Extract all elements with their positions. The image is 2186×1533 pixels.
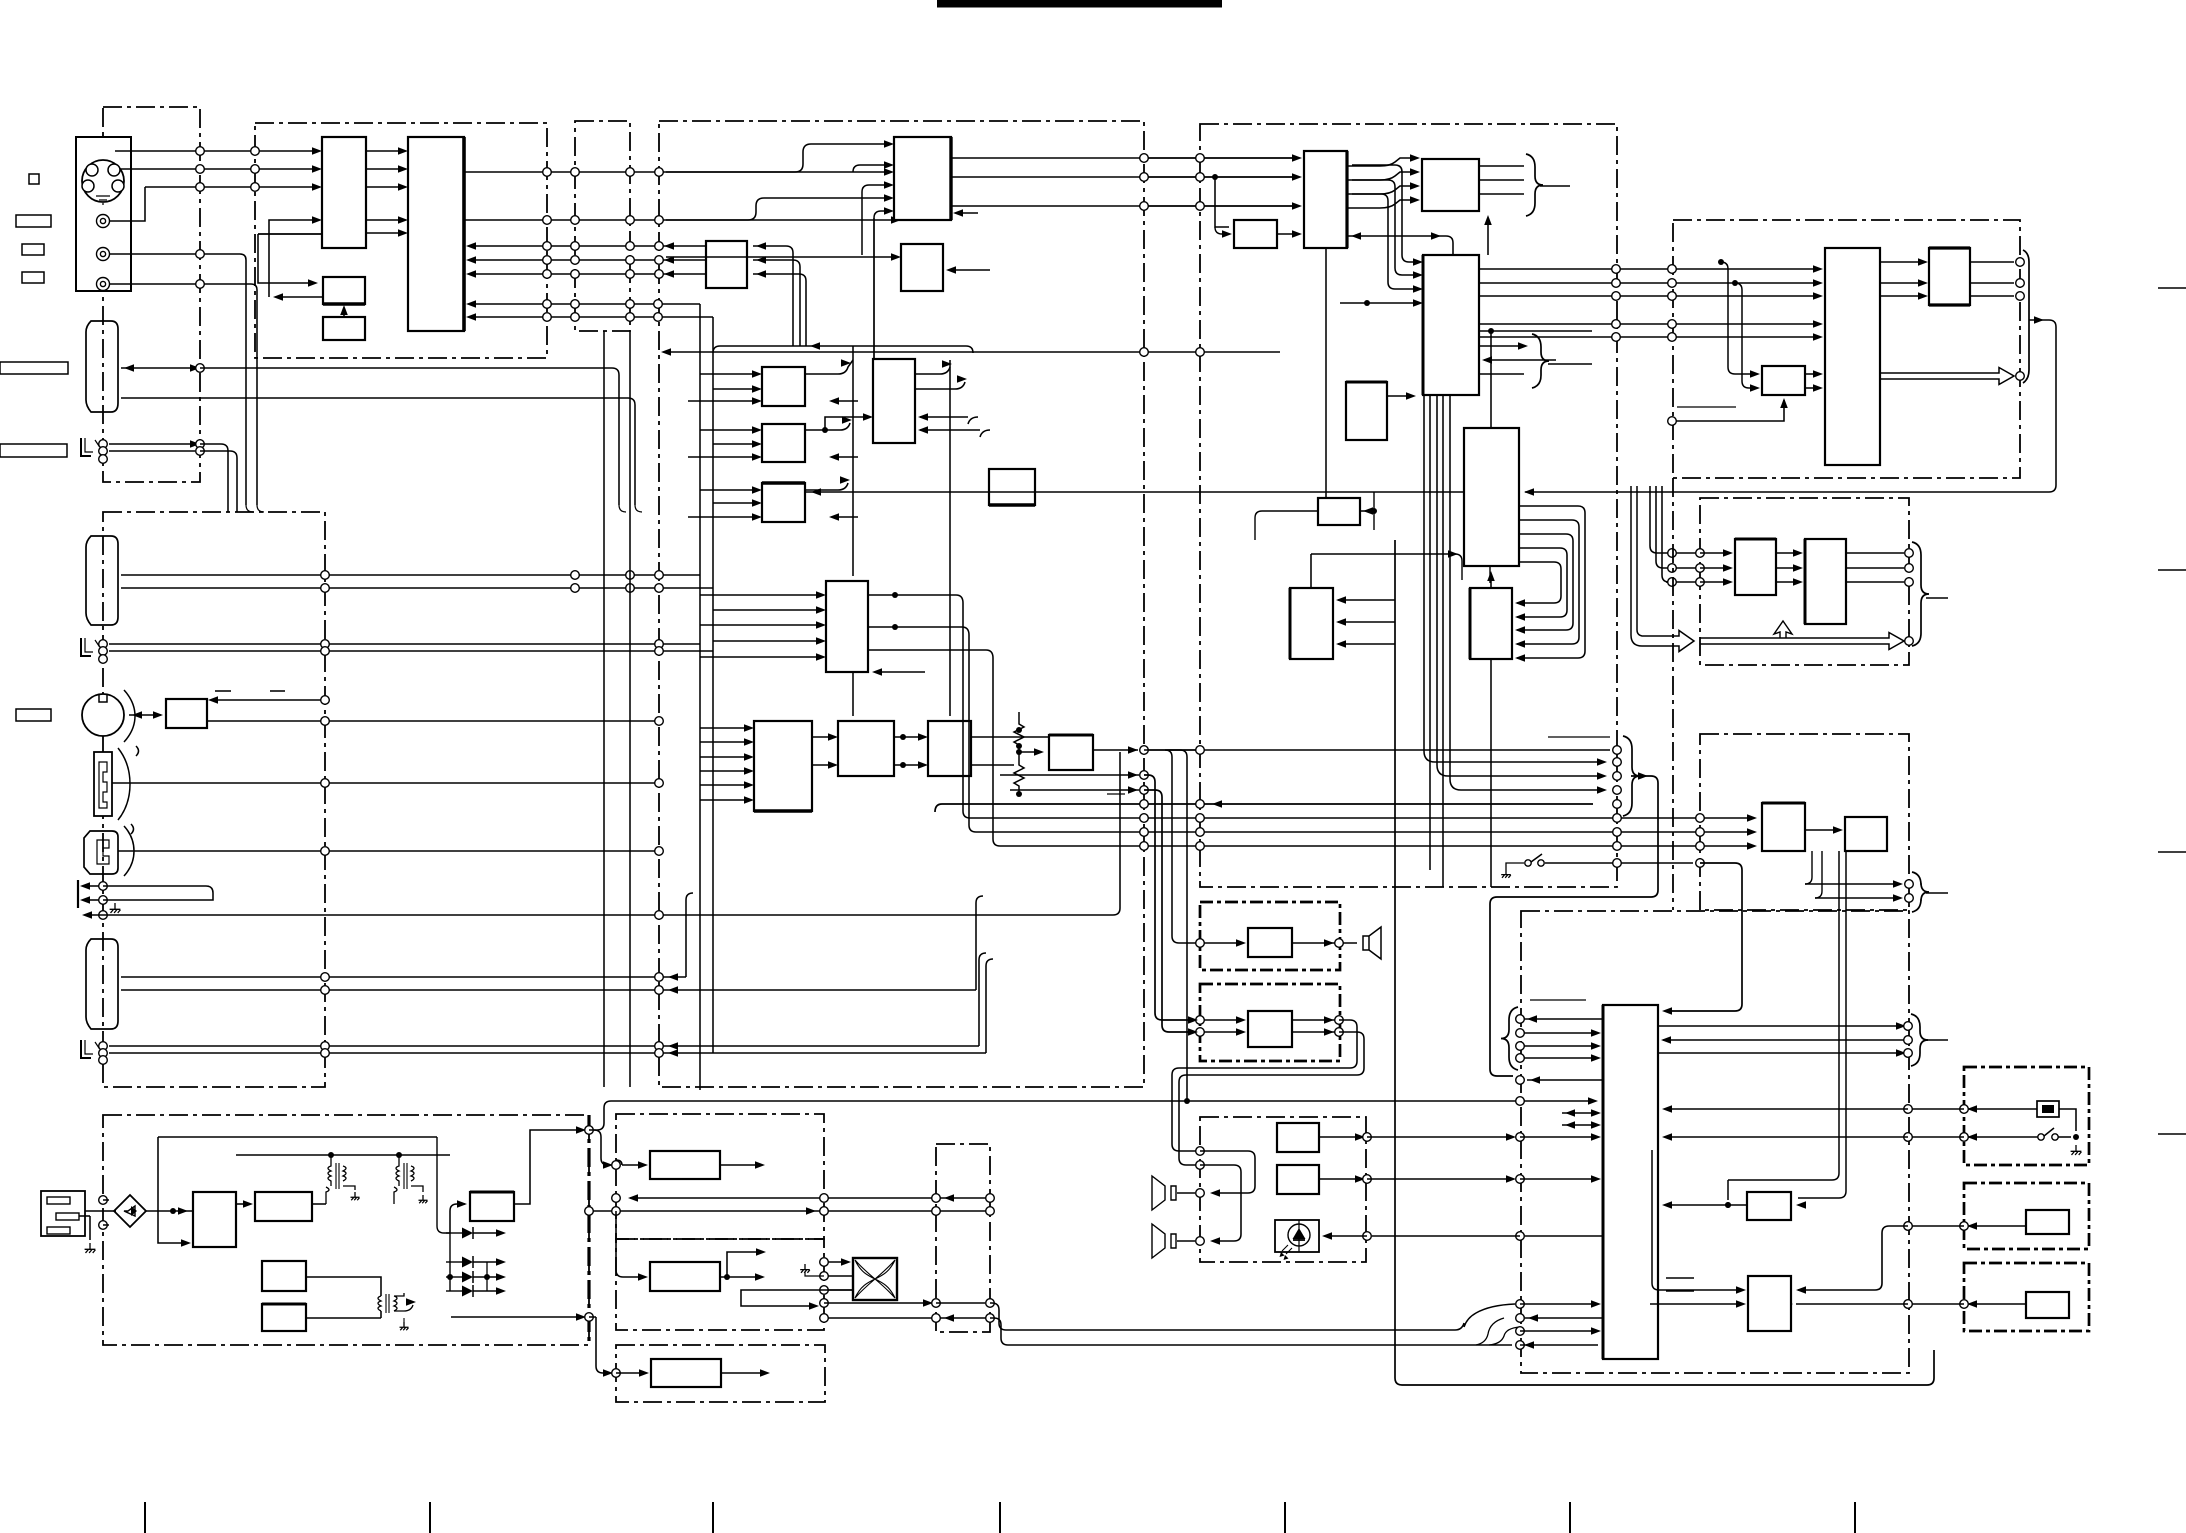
label line segment	[1677, 406, 1736, 408]
wire audio return vertical x1120	[1113, 752, 1120, 915]
block U404 standby supply	[262, 1304, 306, 1331]
block U501 regulator A	[650, 1151, 720, 1179]
wire top horizontal y346	[713, 346, 973, 353]
board outline: connector board left-middle	[103, 512, 325, 1087]
wire long vertical x1395 upper	[1394, 540, 1396, 894]
block U911 IF amp	[1735, 539, 1776, 595]
connector RCA jack 3	[97, 278, 110, 291]
board outline: switch board 1	[1964, 1183, 2089, 1249]
wire U310 inputs	[700, 594, 821, 596]
board outline: power supply board	[103, 1115, 589, 1345]
wire V/A2 audio y651	[109, 650, 713, 652]
connector J1 DIN jack panel	[76, 137, 131, 291]
dash mark pair	[215, 690, 231, 692]
board outline: DV process board	[1200, 124, 1617, 887]
connector memory stick slot	[94, 752, 112, 816]
wire into U101 row4 from sync loop	[269, 220, 317, 297]
label line above	[1530, 999, 1586, 1001]
wire jack riser from D-sub1	[246, 505, 253, 512]
transformer T401	[326, 1155, 331, 1204]
wire U314 out right	[1093, 749, 1138, 751]
wire motor control	[211, 699, 325, 701]
resistor R301	[1014, 712, 1024, 753]
speaker SP702	[1152, 1224, 1176, 1258]
connector video/audio in 2 (V/A)	[81, 638, 91, 656]
connector CF card slot	[84, 831, 118, 874]
connector AC power inlet	[41, 1191, 85, 1236]
block U503 regulator C	[651, 1359, 721, 1387]
wire U310 outputs right	[868, 595, 963, 603]
connector RCA jack 2	[97, 248, 110, 261]
speaker SP701	[1152, 1176, 1176, 1210]
wire vertical bus x700	[699, 304, 701, 1090]
wire riser x874 to U307	[873, 218, 875, 359]
block U102 video decoder	[408, 137, 464, 331]
wire U102 outputs right y172	[464, 171, 889, 173]
block U803 clock gen	[1234, 220, 1277, 248]
wire headphone long return y915	[85, 914, 1113, 916]
wire U807 wires	[1255, 511, 1318, 540]
wire fan loop	[741, 1290, 853, 1306]
board outline: output board top-right	[1673, 220, 2020, 478]
wire input bus to U801 y177	[1139, 176, 1299, 178]
hollow bus branch to U912	[1774, 621, 1792, 638]
wire U804 outputs right y283	[1479, 282, 1820, 284]
wire U804 bidir with U801	[1347, 236, 1453, 255]
brace syscon in	[1501, 1007, 1518, 1070]
wire amp to speaker	[1292, 942, 1357, 944]
board outline: regulator sub board 1	[616, 1114, 824, 1239]
block U502 regulator B	[650, 1262, 720, 1291]
board outline: main process board	[659, 121, 1144, 1087]
wire U311 inputs	[700, 727, 749, 729]
wire RCA1 to row3	[109, 187, 145, 221]
wire U802 up from U804	[1487, 218, 1489, 255]
wire transformer feeds	[328, 1152, 334, 1158]
board outline: monitor speaker board	[1200, 902, 1340, 970]
block U308 SDRAM	[989, 469, 1035, 505]
margin tick 7	[1854, 1502, 1856, 1533]
wire U404 to T403	[306, 1317, 381, 1319]
label rect 2	[22, 244, 44, 255]
wire U303 input stub right	[949, 269, 990, 271]
wire U103 out to left	[276, 296, 323, 298]
wire clock branch to U803	[1215, 177, 1229, 227]
board outline: jumper board	[575, 121, 630, 331]
board outline: LED keyboard board	[1200, 1117, 1366, 1262]
wire row y748 branch down to keys	[1144, 750, 1187, 1101]
wire dv bus fanout right y776	[1437, 765, 1603, 776]
wire X101 to U103	[343, 308, 345, 317]
wire U804 outputs right y324	[1479, 323, 1820, 325]
block U1001 system control micro	[1603, 1005, 1658, 1359]
wire return bus into U102 y246	[469, 245, 706, 247]
wire label right margin y570	[2158, 569, 2186, 571]
block U403 sub regulator	[262, 1261, 306, 1291]
wire U805 output right	[1387, 395, 1412, 397]
wire U307 inputs right	[920, 417, 978, 424]
wire bottom long rail y1385	[1395, 894, 1934, 1385]
wire fan rail y1318 right	[824, 1317, 990, 1319]
block U306 audio DSP input	[762, 483, 805, 522]
board outline: sub speaker board	[1200, 984, 1340, 1061]
wire input bus to U801 y206	[1139, 205, 1299, 207]
wire battery to switch	[2059, 1109, 2076, 1131]
wire driver2 left in2	[1650, 1303, 1743, 1305]
wire U808 inputs from right	[1338, 599, 1395, 601]
board outline: video input board	[255, 123, 547, 358]
wire U311 to U312	[812, 736, 833, 738]
board outline: remote sensor board	[1964, 1067, 2089, 1165]
wire V/A1 video	[109, 443, 195, 445]
wire +B long rail y1101	[589, 1101, 1593, 1130]
wire U102 outputs right y220	[464, 219, 896, 221]
wire U805 inputs left	[1311, 554, 1452, 588]
wire U307 outputs right	[915, 367, 950, 374]
wire fan pins	[824, 1261, 848, 1263]
wire A2 inputs from risers	[753, 246, 793, 346]
brace DV out	[1526, 154, 1543, 216]
wire reg rail y1211	[589, 1210, 990, 1212]
transformer T403	[378, 1296, 381, 1311]
connector D-sub 1	[86, 321, 118, 412]
board outline: timer board mid-right	[1700, 734, 1909, 910]
brace timer out	[1912, 872, 1929, 912]
wire U402 to transformer	[312, 1203, 326, 1205]
label line under y790	[1107, 793, 1125, 795]
wire resistor junction to U314	[1019, 751, 1039, 753]
block U922 display	[1845, 817, 1887, 851]
connector J1 DIN circle	[82, 160, 124, 202]
board outline: front jack board top-left	[103, 107, 200, 482]
wire U401 to U402	[236, 1203, 250, 1205]
wire U801 to U802 rows	[1347, 158, 1417, 166]
toggle switch S801	[1525, 860, 1531, 866]
wire timer bus down 2	[1798, 851, 1846, 1198]
block U921 timer micro	[1762, 803, 1805, 851]
bracket RF out	[2023, 250, 2029, 383]
block U602 sub speaker amp	[1248, 1011, 1292, 1047]
wire phones feed y886 loop	[103, 886, 213, 900]
label square small top-left	[29, 174, 39, 184]
wire reg rail y1198	[630, 1197, 990, 1199]
wire U702 out to system	[1319, 1178, 1362, 1180]
label rect 1	[16, 215, 51, 227]
wire return bus into U102 y317	[469, 316, 713, 318]
wire AC to rectifier	[103, 1210, 116, 1212]
board outline: tuner board mid-right	[1700, 498, 1909, 665]
wire row y832	[969, 635, 1752, 832]
block U312 headphone amp	[838, 721, 894, 776]
dash-dot corridor below output board	[1672, 478, 1674, 910]
wire switch2 to syscon	[1969, 1303, 2026, 1305]
block U801 DV interface	[1304, 151, 1347, 248]
title underline bar	[937, 0, 1222, 8]
wire sub amp out wrap 2	[1179, 1032, 1364, 1165]
wire timer out rows	[1805, 883, 1899, 885]
wire bus y352 long return	[664, 351, 1280, 353]
wire standby rail to reg3	[589, 1317, 610, 1373]
wire U803 to U801	[1277, 233, 1299, 235]
block U103 sync separator	[323, 277, 365, 304]
wire into monitor amp	[1165, 750, 1200, 943]
wire U809 to U806 arrow	[1490, 574, 1492, 588]
wire vertical bus x713	[712, 317, 714, 1053]
wire power rail into reg board 1	[594, 1130, 611, 1165]
wire CF data y851	[118, 850, 659, 852]
board outline: switch board 2	[1964, 1263, 2089, 1331]
block U912 tuner demod	[1805, 539, 1846, 624]
wire sub amp out wrap 1	[1292, 1019, 1339, 1021]
connector video/audio in 3 (V/A)	[81, 1040, 91, 1058]
wire syscon right rows	[1658, 1025, 1903, 1027]
block U804 DV codec	[1423, 255, 1479, 395]
block X101 oscillator	[323, 317, 365, 340]
wire U804 outputs right y337	[1479, 336, 1820, 338]
bridge rectifier D1	[114, 1195, 146, 1227]
wire into U502	[616, 1211, 645, 1277]
brace syscon right	[1911, 1014, 1928, 1066]
wire return bus into U102 y260	[469, 259, 706, 261]
wire U502 out to fan	[720, 1276, 760, 1278]
wire long rail y1345 to system	[1008, 1344, 1512, 1346]
wire tuner rows	[1650, 486, 1666, 553]
block U903 Y/C mix	[1762, 366, 1805, 395]
speaker SP601	[1363, 927, 1381, 959]
wire to SP702	[1200, 1165, 1241, 1241]
block U305 D/A converter	[762, 424, 805, 462]
wire long vertical x950	[949, 360, 951, 716]
wire vertical jumper riser x604	[603, 331, 605, 1087]
brace tuner out	[1912, 542, 1929, 646]
wire DIN video to U101 row3	[145, 186, 317, 188]
wire vertical dv bus from U804	[1423, 395, 1425, 751]
block U902 RF modulator	[1929, 248, 1970, 305]
margin tick 2	[429, 1502, 431, 1533]
block D701 LED	[1275, 1220, 1319, 1252]
wire U304 inputs	[700, 373, 757, 375]
block U314 mute	[1049, 735, 1093, 770]
wire monitor audio out y990	[121, 896, 983, 990]
wire into U501	[616, 1160, 645, 1165]
wire V/A2 video y644	[109, 643, 700, 645]
wire U401 feedback lower	[158, 1137, 188, 1243]
block U302 sync gen	[706, 241, 747, 288]
label line segment y737	[1548, 736, 1610, 738]
wire y220 S-curve into U301	[666, 198, 889, 220]
wire V/A1 audio	[109, 450, 195, 452]
wire U301 input stub right	[956, 212, 978, 214]
wire U903 to U901	[1805, 373, 1820, 375]
wire syscon y1080	[1527, 1079, 1603, 1081]
wire U921 to U922	[1805, 829, 1840, 831]
wire motor drive bidirectional	[129, 714, 161, 716]
wire to SP701	[1200, 1151, 1255, 1193]
wire y172 S-curve into U301	[666, 144, 889, 172]
wire U804 lower stubs	[1479, 345, 1524, 347]
wire return bus into U102 y274	[469, 273, 706, 275]
wire U701 out to system	[1319, 1136, 1362, 1138]
label rect 4	[0, 362, 68, 374]
wire top rail y1137	[158, 1136, 437, 1138]
connector video/audio in 1 (V/A)	[81, 438, 91, 456]
connector headphones jack	[77, 880, 79, 908]
wire row y790 to speaker feed	[1010, 789, 1139, 791]
wire U306 out	[805, 483, 848, 490]
wire to U405	[450, 1204, 465, 1233]
wire memory stick data y783	[112, 782, 659, 784]
brace audio out right	[1623, 736, 1640, 816]
wire U501 out	[720, 1164, 760, 1166]
block U702 key scan	[1277, 1165, 1319, 1194]
block U1003 driver 1	[1747, 1192, 1791, 1220]
wire U804 row y303 with junction	[1340, 302, 1418, 304]
block U402 PWM control	[255, 1192, 312, 1221]
block U806 SDRAM DV	[1464, 428, 1519, 566]
wire syscon left rows upper	[1524, 1018, 1603, 1020]
wire RCA2 down to video section	[109, 254, 246, 505]
wire row y775 to speaker feed	[1000, 774, 1139, 776]
wire timer bus down 1	[1728, 851, 1839, 1200]
wire switch to syscon y1136	[1964, 1136, 2038, 1138]
block U802 serializer	[1422, 159, 1479, 211]
block U101 input selector	[322, 137, 366, 248]
wire rail y1155	[236, 1154, 450, 1156]
wire dv bus fanout right y762	[1424, 751, 1603, 762]
wire U101 to U102 bus	[366, 150, 403, 152]
block U901 video encoder	[1825, 248, 1880, 465]
switch S1 power	[2038, 1134, 2044, 1140]
wire RCA3 down to video section	[109, 284, 257, 505]
wire brace output to system control	[1490, 776, 1658, 1076]
board outline: fan sub board	[936, 1144, 990, 1332]
wire U313 outputs to resistors	[971, 736, 1050, 738]
wire fan sense y1303 to right	[824, 1302, 930, 1304]
wire U806 bus down	[1489, 566, 1491, 583]
wire row y846	[993, 658, 1752, 846]
resistor R302	[1014, 753, 1024, 794]
block U304 A/D converter	[762, 367, 805, 406]
wire U503 out	[721, 1372, 765, 1374]
block U805 memory ctrl	[1346, 382, 1387, 440]
wire riser taps into U301	[853, 165, 889, 172]
wire U903 feeds	[1721, 262, 1757, 374]
hollow bus video out	[1880, 368, 2014, 385]
wire DIN video to U101 row1	[115, 150, 317, 152]
label rect 6	[16, 709, 51, 721]
block U1102 switch block 2	[2026, 1292, 2069, 1318]
wire DIN video to U101 row2	[120, 168, 317, 170]
margin tick 6	[1569, 1502, 1571, 1533]
remote battery B1	[2037, 1101, 2059, 1117]
wire motor sense y721	[207, 720, 659, 722]
wire U405 output to +B rail	[514, 1130, 583, 1204]
wire row y750 audio to brace	[1148, 749, 1610, 751]
wire U301 outputs right	[951, 157, 1294, 159]
label equals marks	[1666, 1277, 1694, 1279]
block U807 EEPROM	[1318, 498, 1360, 525]
block U1101 switch block 1	[2026, 1210, 2069, 1234]
wire vertical jumper riser x630	[629, 331, 631, 1087]
fan ground	[805, 1272, 824, 1276]
connector RCA jack 1	[97, 215, 110, 228]
wire long vertical x853	[852, 346, 854, 576]
wire into sub amp 2	[1195, 1031, 1243, 1033]
wire U305 out to U307	[805, 417, 868, 430]
block U401 switching regulator	[193, 1192, 236, 1247]
wire syscon bidir stubs	[1562, 1112, 1598, 1114]
wire label right margin y288	[2158, 287, 2186, 289]
wire V/A3 audio y1053	[109, 959, 993, 1053]
block U405 secondary regulator	[470, 1192, 514, 1221]
wire D-sub2 line1 y575	[121, 574, 700, 576]
wire D-sub2 line2 y588	[121, 587, 713, 589]
wire monitor video out y977	[121, 893, 693, 977]
connector cassette motor	[82, 694, 124, 736]
wire U312 to U313	[894, 736, 923, 738]
wire U801 down to U807	[1325, 248, 1327, 498]
wire syscon bottom rows	[1520, 1303, 1598, 1305]
hollow bus tuner antenna	[1631, 486, 1694, 652]
wire U310 stub in right	[880, 671, 925, 673]
wire driver2 left in	[1659, 1289, 1743, 1291]
board outline: regulator sub board 2	[616, 1239, 824, 1330]
wire input bus to U801 y158	[1139, 157, 1299, 159]
wire sub rail y1317	[451, 1316, 583, 1318]
wire U103 in from divider	[258, 234, 313, 283]
wire row y804	[935, 804, 1593, 812]
wire diode outputs collect x490	[486, 1262, 488, 1291]
block U310 audio ADC/selector	[826, 581, 868, 672]
wire U804 input cascade curves	[1352, 165, 1418, 262]
wire D-sub1 second line	[121, 398, 635, 505]
wire return bus into U102 y304	[469, 303, 700, 305]
block U301 comb filter	[894, 137, 951, 220]
block U201 motor driver	[166, 699, 207, 728]
transformer T402	[394, 1155, 399, 1204]
label rect 3	[22, 272, 44, 283]
wire rectifier to U401	[178, 1207, 188, 1215]
margin tick 4	[999, 1502, 1001, 1533]
connector D-sub 3	[86, 939, 118, 1029]
brace U804 lower	[1532, 334, 1549, 388]
block U307 field memory	[873, 359, 915, 443]
wire driver1 out	[1665, 1204, 1747, 1206]
diode bank D402-D405	[446, 1232, 462, 1234]
wire RF return long y492	[1525, 320, 2056, 492]
block U701 display driver	[1277, 1123, 1319, 1152]
wire U306 inputs	[700, 489, 757, 491]
block U311 audio DAC	[754, 721, 812, 811]
wire U802 outputs to brace	[1479, 165, 1524, 167]
wire U804 outputs right y296	[1479, 295, 1820, 297]
connector D-sub 2	[86, 536, 118, 625]
wire D-sub1 bidirectional	[121, 367, 195, 369]
block U808 audio codec	[1290, 588, 1333, 659]
wire remote in y1108	[1964, 1108, 2037, 1110]
wire U806 to U809 wrap feeds	[1517, 506, 1585, 658]
board outline: regulator sub board 3	[616, 1345, 825, 1402]
wire U804 outputs right y269	[1479, 268, 1820, 270]
wire U403 to T403	[306, 1277, 381, 1296]
block U1004 driver 2	[1748, 1276, 1791, 1331]
board outline: system control board	[1521, 911, 1909, 1373]
wire U901 to U902 rows	[1880, 261, 1924, 263]
wire U902 outputs	[1970, 261, 2014, 263]
wire diode bus verticals	[449, 1233, 451, 1291]
wire into sub amp 1	[1195, 1019, 1243, 1021]
margin tick 1	[144, 1502, 146, 1533]
